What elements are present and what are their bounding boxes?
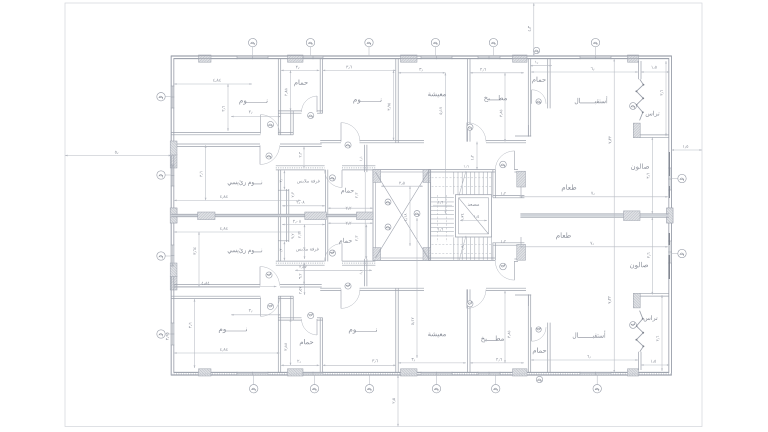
shaft corner column — [423, 248, 431, 261]
terrace column block — [633, 123, 640, 138]
dim 2.0 duct v — [283, 171, 285, 190]
door bubble — [266, 153, 272, 159]
dim 3.6 bedroom1 v — [227, 84, 229, 131]
grid bubble right — [678, 249, 686, 257]
wall stub below bath1 — [278, 131, 293, 133]
window left wall — [170, 86, 172, 108]
party wall column — [198, 212, 215, 220]
grid bubble top — [249, 38, 257, 46]
terrace screen bubble — [630, 103, 637, 110]
dim 2.57 hall bottom h — [295, 269, 372, 271]
small bubble bottom right — [536, 376, 542, 382]
window top wall — [303, 55, 323, 57]
corridor column lower — [517, 244, 526, 260]
stair rail dashed — [432, 177, 493, 179]
party wall right — [520, 213, 668, 215]
wall salon stub corner — [527, 125, 529, 137]
dim 3.6 master v — [205, 145, 207, 200]
wall master east below — [277, 170, 279, 215]
grid bubble bottom — [492, 385, 500, 393]
shaft room inner — [375, 172, 428, 258]
shaft room walls — [373, 170, 431, 261]
dim 3.64 master bottom v — [198, 232, 200, 287]
door bubble — [308, 112, 314, 118]
bottom wall dotted hatch — [171, 373, 671, 375]
column block right wall mid — [667, 208, 673, 223]
window top wall — [237, 55, 268, 57]
dim 1.2 corridor — [501, 192, 506, 195]
small bubble top right — [533, 47, 539, 53]
grid bubble top — [306, 38, 314, 46]
dining dim 7.0 lower — [520, 246, 668, 248]
door bubble — [267, 121, 273, 127]
window left wall — [170, 165, 172, 186]
elevator label — [468, 204, 479, 206]
dim 2.88 bath bottom v — [290, 319, 292, 365]
wall bath3 right — [547, 59, 549, 109]
window right wall — [668, 168, 670, 190]
room label living bottom — [428, 332, 446, 337]
dim 2.6 kitchen bottom — [470, 362, 524, 364]
dim 3.85 kitchen v — [504, 73, 506, 142]
door kitchen — [466, 123, 468, 142]
dim 3.95 bedroom bottom v2 — [166, 333, 169, 341]
shaft dim 4.18 — [409, 186, 411, 246]
dim 4.84 bedroom1 — [174, 83, 252, 85]
wall shaft right of bedroom1 — [290, 111, 292, 135]
room label bath bottom-right — [533, 348, 546, 355]
elevator dim 1.74 — [461, 214, 464, 221]
stairs upper flight — [453, 172, 455, 194]
grid bubble bottom — [432, 385, 440, 393]
dim 2.57 hall bottom v — [304, 263, 306, 295]
dim 2.88 bath1 v — [290, 70, 292, 111]
flat entrance door — [513, 151, 515, 170]
dim 3.6 bedroom2 — [323, 69, 396, 71]
stair break line — [459, 171, 466, 196]
room label kitchen bottom — [481, 336, 504, 343]
dim 6.0 reception bottom — [531, 359, 638, 361]
column block top wall — [628, 55, 639, 62]
room label living top — [428, 92, 446, 97]
room label salon bottom — [630, 262, 648, 269]
door bubble — [536, 99, 541, 104]
corridor wall upper — [493, 194, 525, 196]
dim 2.6 kitchen — [470, 72, 524, 74]
column block top wall — [199, 55, 212, 62]
wall hall south / living bottom — [360, 139, 425, 141]
mirrored bottom half of plan — [170, 56, 673, 376]
party wall column — [357, 212, 374, 220]
room label terrace top — [646, 111, 660, 117]
dim 1.5 terrace bottom — [641, 364, 670, 366]
column block top wall — [401, 55, 418, 62]
door bedroom2 — [340, 123, 342, 142]
wall dressing west — [285, 189, 287, 214]
room label dining bottom — [556, 232, 570, 239]
party wall left fill — [171, 215, 373, 217]
party wall left — [171, 213, 373, 215]
wall kitchen west — [467, 59, 469, 142]
stairs lower flight — [453, 237, 455, 260]
dim 3.6 terrace bottom v — [661, 295, 663, 371]
grid bubble bottom — [310, 385, 318, 393]
shaft cross brace — [375, 172, 428, 258]
dim 1.2 hall v — [476, 142, 478, 170]
wall terrace bottom — [634, 134, 669, 136]
wall corridor east — [364, 145, 366, 172]
dim 4.84 master bottom — [174, 231, 301, 233]
dining dim 7.0 upper — [520, 196, 668, 198]
grid bubble left — [157, 252, 165, 260]
door bubble — [500, 161, 507, 168]
door bath1 — [316, 96, 318, 112]
room label master bedroom bottom — [228, 248, 262, 254]
room label bedroom top-2 — [353, 98, 381, 103]
room label bath bottom-left — [300, 339, 313, 346]
room label bath top-left — [294, 80, 307, 87]
door bath3 — [531, 90, 533, 104]
stair dim 1.6 lower — [438, 228, 443, 231]
dim 5.17 living bottom v — [416, 218, 418, 358]
dim 2.0 bath1 — [281, 69, 319, 71]
stairs side flight — [431, 197, 454, 199]
dim 3.95 bedroom2 v — [393, 70, 395, 140]
grid bubble top — [591, 38, 599, 46]
grid bubble bottom — [250, 385, 258, 393]
dim 1.1 corridor east v — [364, 172, 366, 214]
grid bubble top — [431, 38, 439, 46]
grid bubble left — [157, 171, 165, 179]
dim 1.2 corridor bottom — [501, 240, 506, 243]
column block left wall — [170, 155, 177, 169]
wall bath1 bottom — [278, 110, 301, 112]
stair dim 1.6 — [438, 201, 443, 204]
door bubble — [467, 124, 473, 130]
column block left wall — [170, 208, 177, 223]
room label bath top-right — [532, 77, 545, 84]
dim 3.85 kitchen bottom v — [504, 291, 506, 363]
wall dressing/bath2 divider — [324, 170, 326, 215]
grid bubble bottom — [365, 385, 373, 393]
wall bedroom1/bath1 — [277, 59, 279, 135]
door bath2 — [341, 170, 343, 188]
dim 2.3 dressing v — [292, 192, 295, 197]
grid bubble right — [678, 174, 686, 182]
room label bedroom bottom-2 — [349, 328, 377, 333]
dim 3.6 terrace v — [665, 61, 667, 136]
elevator diagonal — [459, 198, 489, 234]
corridor column upper — [517, 171, 526, 187]
room label bedroom top-left — [239, 99, 267, 104]
dim 1.5 right — [671, 149, 702, 151]
window top wall — [478, 55, 500, 57]
shaft dim 2.5 — [381, 185, 423, 187]
wall reception west — [527, 59, 529, 137]
room label dressing bottom — [296, 247, 319, 252]
shaft corner column — [373, 170, 381, 183]
door bubble — [345, 142, 351, 148]
column block left wall — [170, 276, 177, 290]
room label bedroom bottom-left — [219, 328, 247, 333]
room label master bedroom top — [228, 180, 262, 186]
dim 2.08 dressing bottom — [282, 224, 325, 226]
room label bath2 bottom — [339, 238, 352, 244]
column block top wall — [288, 55, 304, 62]
room label terrace bottom — [644, 315, 658, 321]
dim 2.0 hall — [231, 116, 281, 118]
grid bubble left — [157, 93, 165, 101]
door bedroom1 — [260, 115, 262, 134]
room label kitchen top — [484, 95, 507, 102]
grid bubble top — [365, 38, 373, 46]
dim 2.08 dressing — [282, 205, 325, 207]
grid bubble left — [157, 330, 165, 338]
wall master top stub — [280, 143, 322, 145]
shaft corner column — [423, 170, 431, 183]
dim 2.0 hall bottom — [231, 314, 281, 316]
party wall column — [305, 212, 327, 220]
dim 5.0 left — [65, 155, 171, 157]
window top wall — [421, 55, 452, 57]
dim 2.2 bath2 bottom — [328, 222, 373, 224]
dim 4.3 top — [533, 3, 535, 56]
party wall right fill — [520, 215, 668, 217]
wall bedroom2/living — [395, 59, 397, 143]
wall bath1 right — [319, 59, 321, 113]
grid bubble top — [489, 38, 497, 46]
dim 3.6 bedroom bottom v — [194, 299, 196, 368]
corridor wall lower — [493, 242, 525, 244]
wall bedroom1 bottom — [171, 131, 260, 133]
shaft corner column — [373, 248, 381, 261]
dim 1.0 bath3 — [530, 65, 552, 67]
grid bubble bottom — [593, 385, 601, 393]
room label reception top — [575, 96, 608, 104]
room label dressing top — [297, 179, 320, 184]
salon height dim upper — [651, 137, 653, 214]
dim 6.0 reception — [531, 71, 638, 73]
vert dim 7.32 — [613, 59, 615, 373]
wall dressing top — [276, 165, 325, 167]
exterior wall outer line — [171, 56, 671, 375]
dim 5.17 living v — [444, 73, 446, 214]
column block top wall — [513, 55, 528, 62]
dim 4.84 bedroom bottom — [174, 352, 280, 354]
dim 4.84 master — [174, 199, 301, 201]
room label bath2 top — [341, 188, 354, 194]
salon glazing right wall — [668, 152, 670, 176]
terrace zigzag screen — [636, 79, 643, 120]
dim 1.5 terrace — [641, 71, 670, 73]
door master — [259, 145, 261, 164]
shaft marker circle — [414, 211, 420, 217]
dim 3.0 living bottom — [398, 362, 466, 364]
dim 4.84 hall bottom — [173, 286, 277, 288]
wall corridor jamb — [514, 169, 518, 171]
window top wall — [580, 55, 611, 57]
dim 2.3 bath2 bottom v — [365, 225, 367, 260]
room label reception bottom — [573, 331, 606, 339]
dim 2.2 bath2 — [328, 207, 373, 209]
wall master top — [174, 143, 260, 145]
elevator shaft — [456, 195, 492, 237]
party wall column right — [624, 211, 641, 221]
shaft marker circle — [385, 199, 391, 205]
room label salon top — [631, 164, 649, 171]
dim 2.5 bottom — [397, 375, 399, 426]
corridor jamb lines — [520, 187, 522, 195]
wall bedroom2 bottom — [320, 139, 341, 141]
dim 3.0 living — [398, 72, 445, 74]
elevator dim 1.5 — [474, 215, 479, 218]
stair core outline — [427, 170, 429, 261]
salon height dim lower — [651, 217, 653, 294]
dim 2.3 corridor v — [303, 147, 305, 169]
door bubble — [329, 175, 335, 181]
dim 2.3 corridor bottom v — [304, 225, 306, 260]
shaft marker circle — [385, 224, 391, 230]
dim 2.0 bath bottom — [281, 364, 319, 366]
wall kitchen bottom — [486, 139, 526, 141]
wall bath2 top — [342, 165, 375, 167]
duct cap — [278, 189, 289, 191]
exterior wall inner line — [174, 59, 669, 373]
wall terrace west upper — [638, 61, 640, 79]
room label dining top — [562, 184, 576, 191]
dim 3.6 bedroom2 bottom — [323, 364, 396, 366]
